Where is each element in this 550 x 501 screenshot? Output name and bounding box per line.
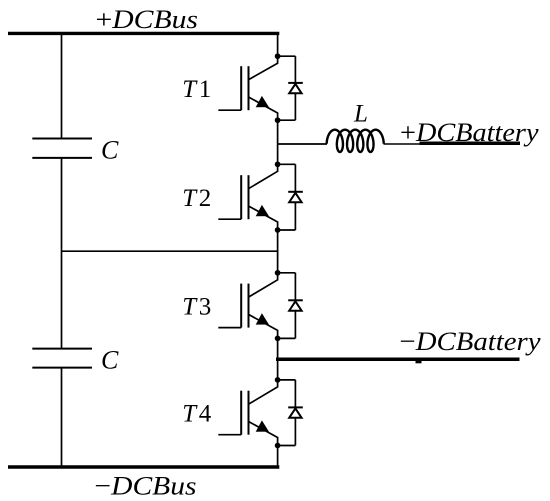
inductor L coil (327, 130, 384, 152)
wire -DCBattery terminal (thick) (416, 360, 422, 364)
wire capacitor-leg middle (61, 158, 63, 349)
emitter arrow T3 (256, 313, 269, 324)
wire +DC bus (thick top rail) (8, 32, 279, 35)
wire +DCBattery terminal (thick) (420, 142, 521, 146)
svg-text:L: L (353, 100, 368, 127)
node T1 emitter junction (275, 117, 281, 123)
capacitor C (upper) (32, 139, 92, 158)
transistor Q2 (T2 IGBT) (241, 175, 248, 219)
transistor Q4 (T4 IGBT) (241, 391, 248, 435)
diode D2 (freewheel of T2) (278, 164, 296, 230)
wire capacitor-leg bottom (61, 368, 63, 467)
emitter arrow T2 (256, 205, 269, 216)
wire midpoint link (caps midpoint to leg midpoint) (62, 250, 278, 252)
wire phase output to inductor (278, 143, 327, 145)
svg-text:T3: T3 (182, 294, 213, 321)
svg-text:+DCBattery: +DCBattery (400, 117, 539, 147)
diode D4 (freewheel of T4) (278, 380, 296, 446)
svg-text:T2: T2 (182, 185, 213, 212)
svg-text:+DCBus: +DCBus (96, 4, 199, 34)
node T4 emitter junction (275, 443, 281, 449)
node T3 collector junction (275, 270, 281, 276)
svg-text:T4: T4 (182, 401, 213, 428)
transistor Q1 (T1 IGBT) (241, 66, 248, 110)
node T4 collector junction (275, 377, 281, 383)
node T2 collector junction (275, 161, 281, 167)
wire -DC bus (thick bottom rail) (8, 465, 279, 468)
transistor Q3 (T3 IGBT) (241, 284, 248, 328)
svg-text:C: C (101, 136, 119, 165)
wire capacitor-leg top (61, 33, 63, 138)
svg-text:T1: T1 (182, 76, 213, 103)
node T1 collector junction (275, 53, 281, 59)
svg-text:−DCBattery: −DCBattery (400, 326, 541, 356)
svg-text:−DCBus: −DCBus (95, 471, 197, 501)
svg-text:C: C (101, 345, 119, 374)
emitter arrow T1 (256, 96, 269, 107)
node T2 emitter junction (275, 227, 281, 233)
emitter arrow T4 (256, 420, 269, 431)
diode D3 (freewheel of T3) (278, 273, 296, 339)
diode D1 (freewheel of T1) (278, 56, 296, 120)
capacitor C (lower) (32, 349, 92, 368)
wire inductor to +DCBattery terminal (384, 143, 421, 145)
wire main leg rail segments (277, 32, 279, 468)
node T3 emitter junction (275, 336, 281, 342)
